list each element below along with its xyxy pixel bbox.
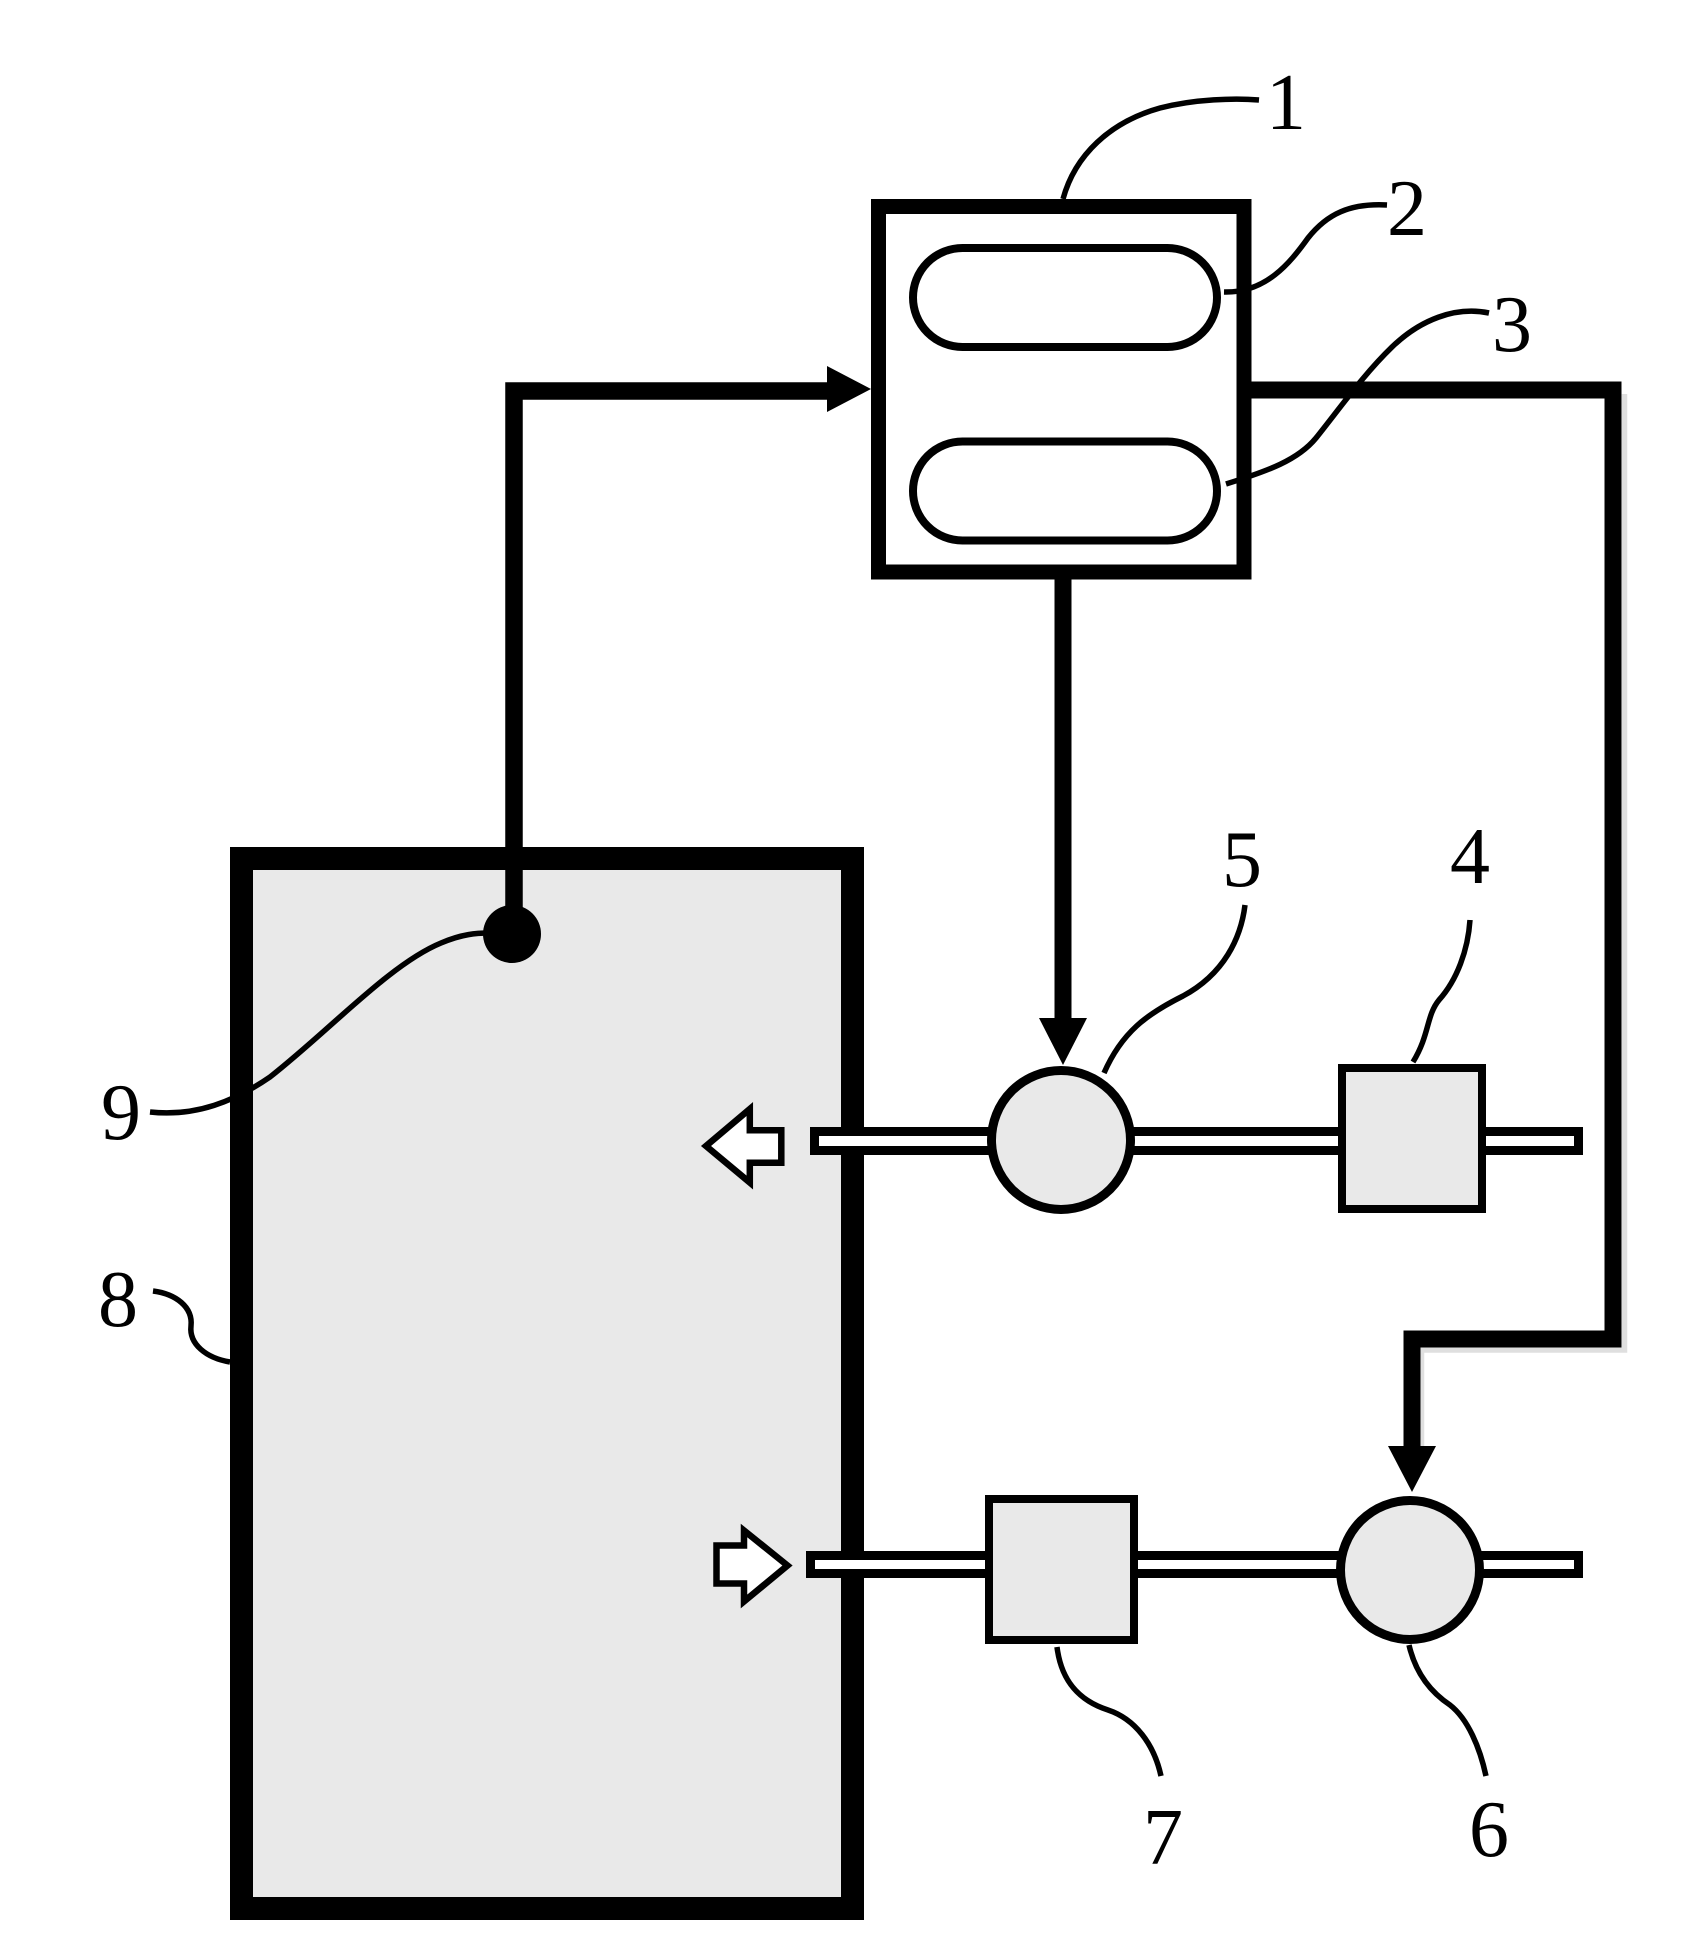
arrowhead into pump 5 [1039, 1018, 1087, 1065]
controller box 1 [879, 207, 1245, 573]
wire controller 1 to pump 6 [1244, 390, 1613, 1452]
wire sensor 9 to controller 1 [514, 391, 831, 940]
sensor dot 9 [483, 905, 541, 963]
svg-text:9: 9 [101, 1069, 141, 1157]
pump 6 [1341, 1501, 1480, 1640]
svg-text:6: 6 [1469, 1786, 1509, 1874]
wire shadow right path [1422, 394, 1625, 1460]
leader 2 [1224, 205, 1387, 292]
leader 7 [1057, 1647, 1161, 1776]
svg-text:7: 7 [1143, 1794, 1183, 1882]
flow arrow out left [706, 1109, 781, 1183]
leader 6 [1409, 1645, 1486, 1776]
leader 5 [1104, 905, 1245, 1073]
leader 8 [153, 1291, 230, 1362]
valve 7 [989, 1499, 1134, 1640]
wire controller 1 to pump 5 [1055, 572, 1072, 1020]
svg-text:4: 4 [1450, 813, 1490, 901]
svg-text:5: 5 [1222, 816, 1262, 904]
leader 1 [1063, 99, 1259, 199]
svg-text:1: 1 [1266, 59, 1306, 147]
coil 2 [913, 248, 1217, 347]
arrowhead into pump 6 [1388, 1446, 1436, 1492]
leader 3 [1226, 311, 1489, 484]
pipe upper [815, 1132, 1579, 1151]
pipe lower [811, 1556, 1579, 1574]
flow arrow in right [717, 1531, 788, 1602]
coil 3 [913, 442, 1217, 541]
arrowhead into controller [827, 366, 871, 412]
leader 9 [150, 933, 489, 1113]
svg-text:3: 3 [1492, 281, 1532, 369]
valve 4 [1342, 1068, 1482, 1209]
leader 4 [1413, 920, 1470, 1062]
tank 8 [242, 859, 853, 1909]
svg-text:2: 2 [1387, 165, 1427, 253]
svg-text:8: 8 [98, 1256, 138, 1344]
pump 5 [992, 1071, 1131, 1210]
